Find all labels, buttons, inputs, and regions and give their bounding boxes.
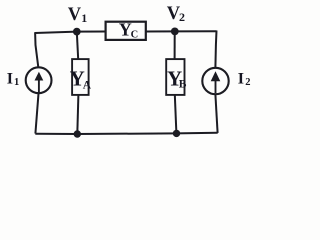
wire: right vertical (upper part, corner to I2 source) <box>215 31 216 68</box>
svg-text:A: A <box>83 79 92 91</box>
svg-text:2: 2 <box>245 77 250 88</box>
label V2 <box>167 4 185 24</box>
admittance Y_B (box on V2 branch) <box>166 59 187 95</box>
label V1 <box>68 5 88 25</box>
node V1 (junction dot on top wire) <box>73 28 81 36</box>
svg-text:I: I <box>238 70 244 87</box>
wire: bottom horizontal <box>35 133 217 134</box>
wire: top-left horizontal segment from left corner to Y_C box <box>35 32 106 34</box>
wire: top-right horizontal segment from Y_C box to right corner <box>146 30 217 32</box>
svg-text:B: B <box>179 78 187 90</box>
svg-text:I: I <box>7 70 13 87</box>
admittance Y_A (box on V1 branch) <box>70 59 92 95</box>
wire: branch from node V2 down to Y_B <box>174 31 176 59</box>
svg-text:1: 1 <box>14 77 19 88</box>
svg-text:C: C <box>131 29 139 40</box>
svg-text:2: 2 <box>179 10 185 24</box>
wire: left vertical (lower part, I1 source to bottom corner) <box>35 94 38 134</box>
bottom junction dot (below Y_B) <box>173 130 180 137</box>
admittance Y_C (box between V1 and V2) <box>106 20 146 41</box>
wire: branch from Y_B down to bottom node <box>175 95 177 134</box>
current source I2 (circle with up arrow) <box>202 68 228 94</box>
svg-text:1: 1 <box>81 11 87 25</box>
bottom junction dot (below Y_A) <box>74 130 81 137</box>
wire: branch from node V1 down to Y_A <box>77 32 78 60</box>
svg-text:V: V <box>68 5 82 25</box>
wire: right vertical (lower part, I2 source to bottom corner) <box>215 94 217 132</box>
wire: branch from Y_A down to bottom node <box>77 95 78 135</box>
wire: left vertical (upper part, corner to I1 source) <box>35 32 38 67</box>
label I1 <box>7 70 19 88</box>
current source I1 (circle with up arrow) <box>26 67 52 93</box>
node V2 (junction dot on top wire) <box>171 28 179 36</box>
label I2 <box>238 70 251 88</box>
